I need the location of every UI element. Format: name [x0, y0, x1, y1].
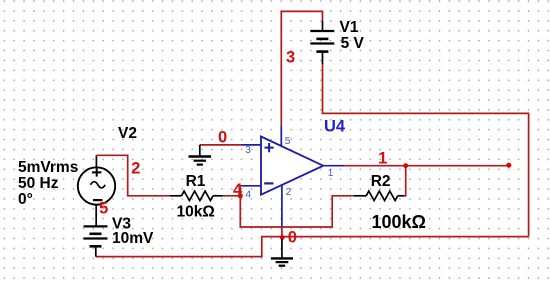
- op-amp U4: [261, 137, 323, 195]
- AC source V2: [78, 155, 115, 226]
- resistor R2: [354, 191, 404, 200]
- svg-text:50 Hz: 50 Hz: [18, 175, 59, 192]
- svg-text:5 V: 5 V: [341, 35, 365, 52]
- svg-text:10mV: 10mV: [112, 230, 154, 247]
- svg-text:U4: U4: [324, 117, 346, 135]
- svg-text:1: 1: [378, 150, 387, 168]
- op-amp pin - stub (pin 4): [242, 185, 261, 187]
- wire net 3 (V1 + to op-amp pin 5): [281, 11, 322, 126]
- battery V3: [84, 226, 108, 256]
- wire node 4 up to - input: [240, 186, 242, 197]
- wire + input to ground (net 0 top): [200, 144, 242, 146]
- svg-text:5: 5: [285, 136, 291, 147]
- svg-text:0°: 0°: [18, 191, 33, 208]
- svg-text:100kΩ: 100kΩ: [372, 212, 426, 232]
- svg-text:5mVrms: 5mVrms: [18, 159, 78, 176]
- svg-text:2: 2: [131, 159, 140, 177]
- svg-text:3: 3: [286, 48, 295, 66]
- op-amp output stub (pin 1): [323, 165, 345, 167]
- svg-text:2: 2: [286, 187, 292, 198]
- svg-text:0: 0: [218, 129, 227, 147]
- junction node 1: [403, 163, 408, 168]
- wire R1 to node 4: [223, 195, 241, 197]
- output end dot: [506, 163, 511, 168]
- op-amp pin 5 stub: [280, 126, 282, 148]
- junction node 0: [280, 235, 285, 240]
- wire ground bus net 0 (right to left, down, to V3 -): [96, 237, 529, 257]
- wire R2 up to output node: [404, 166, 406, 196]
- resistor R1: [170, 191, 223, 200]
- wire V1 - down right side to ground bus: [323, 64, 529, 237]
- svg-text:R1: R1: [186, 173, 206, 190]
- ground symbol (bottom): [271, 239, 293, 266]
- feedback wire (node 4 to R2): [240, 196, 353, 227]
- svg-text:4: 4: [246, 189, 252, 200]
- svg-text:V2: V2: [118, 125, 137, 142]
- svg-text:0: 0: [288, 229, 297, 247]
- svg-text:5: 5: [99, 199, 108, 217]
- wire net 2 (V2 + to R1): [96, 155, 170, 196]
- svg-text:1: 1: [328, 168, 334, 179]
- junction node 4: [238, 193, 243, 198]
- svg-text:4: 4: [233, 181, 243, 199]
- op-amp pin 2 wire to ground node: [281, 185, 283, 238]
- output wire net 1: [345, 165, 509, 167]
- svg-text:V1: V1: [340, 19, 359, 36]
- svg-text:3: 3: [245, 145, 251, 156]
- svg-text:R2: R2: [371, 173, 391, 190]
- battery V1: [310, 21, 334, 64]
- op-amp pin + stub (pin 3): [242, 144, 262, 146]
- ground symbol (top): [189, 145, 212, 165]
- svg-text:10kΩ: 10kΩ: [177, 204, 215, 221]
